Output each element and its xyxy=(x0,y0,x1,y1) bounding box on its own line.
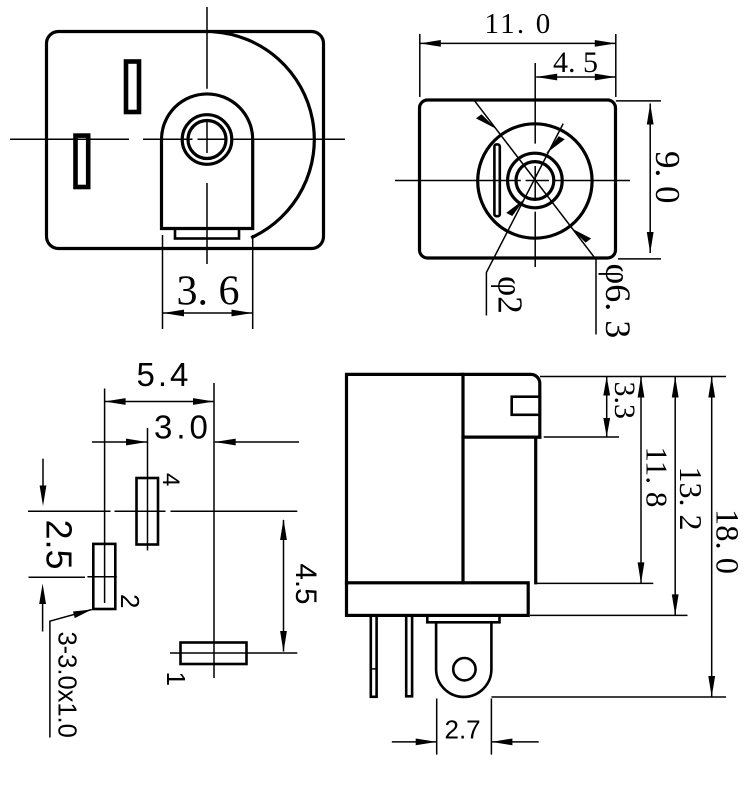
dimension 11.8 line xyxy=(640,377,642,584)
svg-text:4. 5: 4. 5 xyxy=(553,46,598,79)
side view internal vertical line xyxy=(461,374,464,582)
dimension 2.7 extension lines xyxy=(437,699,492,755)
dimension 4.5 arrowheads xyxy=(280,519,287,540)
dimension 2.5 lower arrow xyxy=(42,604,44,632)
leader 3-3.0x1.0 arrowhead xyxy=(73,610,92,619)
side view pin B xyxy=(406,615,412,696)
svg-text:11. 8: 11. 8 xyxy=(640,447,675,508)
pad 1 vertical centerline / 5.4 extension xyxy=(213,383,215,678)
front view body outline xyxy=(47,32,324,249)
dimension 3.0 arrowhead right xyxy=(215,439,236,446)
svg-text:φ2: φ2 xyxy=(491,276,530,314)
dimension 2.7 right arrow xyxy=(491,741,538,743)
svg-text:3.0: 3.0 xyxy=(154,409,212,446)
pad 4 vertical centerline xyxy=(147,428,149,551)
flange top extension line xyxy=(535,582,654,584)
svg-text:2.5: 2.5 xyxy=(39,520,80,570)
dimension 5.4 arrowheads xyxy=(105,398,126,405)
dimension 4.5 line xyxy=(283,520,285,652)
dimension 3.6 extension lines xyxy=(163,235,253,329)
svg-text:11. 0: 11. 0 xyxy=(485,8,553,40)
pin bottom extension line xyxy=(491,696,726,698)
dimension 13.2 arrowheads xyxy=(672,377,679,398)
top view inner circle xyxy=(516,162,554,200)
side view pin A tick xyxy=(371,668,377,670)
svg-text:9. 0: 9. 0 xyxy=(648,151,687,204)
pad 2 xyxy=(93,544,115,609)
dimension 18.0 line xyxy=(711,377,713,698)
svg-text:2.7: 2.7 xyxy=(445,715,481,745)
svg-text:18. 0: 18. 0 xyxy=(708,509,744,574)
pad 1 xyxy=(181,643,247,665)
top view middle circle xyxy=(508,153,563,208)
front view vertical centerline xyxy=(206,7,208,264)
front view barrel inner circle xyxy=(188,121,226,159)
leader 3-3.0x1.0 line xyxy=(50,610,92,738)
dimension 4.5 arrowheads xyxy=(536,74,557,81)
side view center lug top bar xyxy=(427,615,499,622)
pad 1 horizontal centerline xyxy=(170,652,297,654)
dimension 9.0 line xyxy=(649,104,651,254)
pad 2 vertical centerline / 5.4 extension xyxy=(104,389,106,604)
phi6.3 arrowheads xyxy=(476,114,497,129)
phi2 arrowheads xyxy=(546,136,565,153)
dimension 18.0 arrowheads xyxy=(708,377,715,398)
flange bottom extension line xyxy=(530,614,688,616)
svg-text:3. 6: 3. 6 xyxy=(177,269,240,315)
dimension 2.7 left arrow xyxy=(392,741,437,743)
dimension 11.8 arrowheads xyxy=(638,377,645,398)
side view internal horizontal line xyxy=(463,436,540,439)
dimension 3.3 line xyxy=(606,377,608,438)
front view barrel outer circle xyxy=(182,115,232,165)
top view left slot xyxy=(494,144,499,216)
front view left slot xyxy=(76,136,89,187)
svg-text:4.5: 4.5 xyxy=(289,564,322,605)
svg-text:3.3: 3.3 xyxy=(608,382,641,420)
dimension 9.0 extension lines xyxy=(616,101,661,259)
dimension 11.0 arrowheads xyxy=(420,40,441,47)
dimension 2.5 upper arrow xyxy=(42,459,44,487)
svg-text:3-3.0x1.0: 3-3.0x1.0 xyxy=(53,632,81,738)
pad 2 horizontal centerline xyxy=(29,576,117,579)
dimension 3.3 arrowheads xyxy=(603,377,610,396)
side view center lug body xyxy=(436,622,491,697)
dimension 11.0 extension lines xyxy=(420,34,616,97)
side view lug hole xyxy=(453,658,475,680)
dimension 3.0 line right xyxy=(215,441,299,443)
dimension 3.0 arrowhead left xyxy=(126,439,147,446)
dimension 13.2 line xyxy=(674,377,676,616)
side view pin A xyxy=(371,615,377,696)
dimension 3.6 arrowheads xyxy=(163,310,184,317)
svg-text:1: 1 xyxy=(161,672,191,686)
phi6.3 leader line xyxy=(474,100,596,335)
front view barrel bottom tab xyxy=(175,229,239,239)
front view horizontal centerline xyxy=(10,138,345,140)
side view body outline xyxy=(347,374,540,582)
top view body outline xyxy=(420,100,616,258)
top extension line xyxy=(540,376,726,378)
top view large circle xyxy=(478,124,592,238)
dimension 3.0 line left xyxy=(92,441,147,443)
dimension 11.0 line xyxy=(420,42,616,44)
svg-text:4: 4 xyxy=(157,473,184,486)
front view barrel housing xyxy=(162,94,253,229)
3.3 lower extension line xyxy=(544,436,619,438)
dimension 4.5 line xyxy=(536,76,616,78)
dimension 3.6 line xyxy=(163,312,253,314)
side view notch xyxy=(512,397,540,415)
svg-text:φ6. 3: φ6. 3 xyxy=(598,264,638,339)
top view horizontal centerline xyxy=(395,180,630,182)
phi2 leader line xyxy=(486,124,563,316)
pad 4 xyxy=(137,478,159,545)
front view large arc xyxy=(214,32,314,237)
front view upper slot xyxy=(126,62,139,113)
svg-text:2: 2 xyxy=(115,594,145,608)
dimension 5.4 line xyxy=(105,401,214,403)
svg-text:5.4: 5.4 xyxy=(137,356,192,393)
dimension 9.0 arrowheads xyxy=(647,104,654,125)
horizontal reference line through pad 4 xyxy=(28,510,297,512)
side view flange xyxy=(347,583,529,616)
svg-text:13. 2: 13. 2 xyxy=(673,467,709,531)
top view vertical centerline xyxy=(534,63,536,267)
